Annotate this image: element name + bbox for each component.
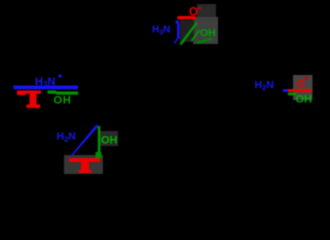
svg-text:O: O (297, 78, 306, 90)
svg-text:OH: OH (200, 27, 216, 39)
svg-text:O: O (189, 6, 198, 18)
svg-text:OH: OH (296, 94, 313, 106)
svg-text:OH: OH (101, 135, 118, 147)
svg-text:OH: OH (54, 95, 72, 107)
